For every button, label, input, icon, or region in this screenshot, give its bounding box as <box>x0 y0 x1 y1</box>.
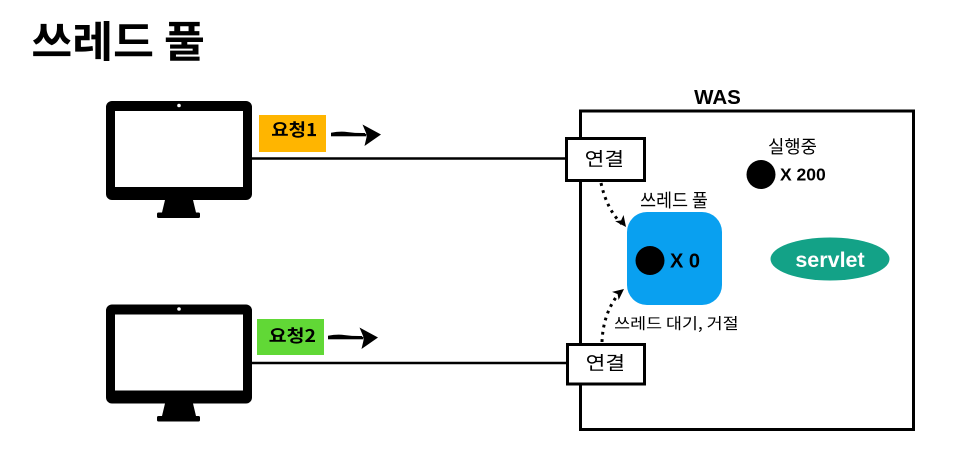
arrow: request 2 flow <box>328 328 378 350</box>
monitor icon 1 (client computer) <box>106 101 252 218</box>
label 실행중 <box>769 138 816 154</box>
monitor icon 2 (client computer) <box>106 305 252 422</box>
arrow: request 1 flow <box>331 125 381 147</box>
title: 쓰레드 풀 <box>33 21 203 61</box>
wire: monitor 1 to 연결 box 1 <box>252 157 567 159</box>
WAS server box <box>581 86 914 430</box>
thread pool box (blue) <box>627 212 722 305</box>
svg-text:servlet: servlet <box>795 248 864 272</box>
request box 요청2 (green) <box>257 319 324 355</box>
dotted arrow: 연결 1 to thread pool <box>601 183 630 230</box>
svg-text:X 0: X 0 <box>670 251 700 273</box>
svg-text:X 200: X 200 <box>780 165 826 185</box>
wire: monitor 2 to 연결 box 2 <box>251 362 567 364</box>
connection box 연결 1 <box>567 139 645 181</box>
svg-text:WAS: WAS <box>694 86 741 109</box>
dotted arrow: 연결 2 to thread pool <box>602 285 627 342</box>
running thread circle x200 <box>747 160 826 189</box>
label 쓰레드 풀 (small) <box>641 191 707 208</box>
connection box 연결 2 <box>568 345 645 385</box>
servlet ellipse <box>771 238 890 281</box>
request box 요청1 (orange) <box>259 115 326 152</box>
label 쓰레드 대기, 거절 <box>615 316 737 332</box>
